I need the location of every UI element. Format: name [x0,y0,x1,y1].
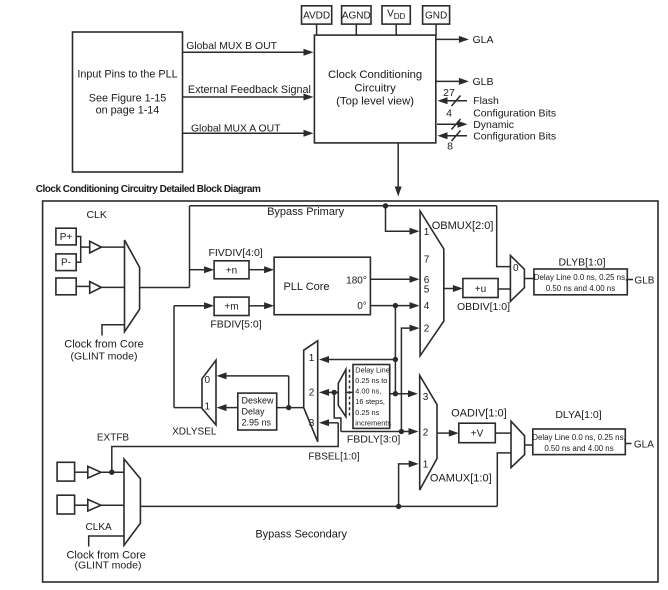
svg-text:Input Pins to the PLL: Input Pins to the PLL [77,69,177,81]
svg-text:Bypass Secondary: Bypass Secondary [255,529,347,541]
wire divider m to PLL core [249,305,265,307]
wire GLA output [436,38,459,40]
pin AGND [342,6,371,24]
node feedback select 1 junction [393,357,398,362]
wire into FBSEL input 2 [329,391,334,393]
wire to OBMUX input 1 [386,206,411,231]
wire GLB mux to DLYB [524,278,534,280]
wire PLL 0 to OBMUX 4 [370,305,410,307]
svg-text:PLL Core: PLL Core [283,281,329,293]
svg-text:4: 4 [424,301,430,312]
wire delayed net to OAMUX 2 [341,431,409,433]
svg-text:0: 0 [205,375,211,386]
wire VDD stem [395,24,397,35]
svg-text:External Feedback Signal: External Feedback Signal [188,84,311,96]
wire delayed net to OBMUX 2 [401,328,410,431]
svg-text:16 steps,: 16 steps, [355,397,385,406]
svg-text:DLYB[1:0]: DLYB[1:0] [558,256,605,268]
svg-text:7: 7 [424,255,430,266]
mux OAMUX [420,375,437,490]
pad CLKA 1 [57,462,75,481]
wire AVDD stem [316,24,318,35]
svg-text:CLKA: CLKA [86,522,112,533]
svg-text:Circuitry: Circuitry [354,82,396,94]
wire pad3 to buffer [76,285,90,287]
svg-text:OBMUX[2:0]: OBMUX[2:0] [432,220,494,232]
wire pad to buffer [75,504,88,506]
svg-text:2: 2 [424,324,430,335]
pad CLKA 2 [57,495,75,514]
PLL core box [274,257,370,315]
mux GLA bypass select [511,421,525,467]
wire OBMUX to divider u [444,288,454,290]
svg-text:FBDLY[3:0]: FBDLY[3:0] [347,434,401,446]
wire CLK mux output [140,287,190,289]
wire feedback into divider m [174,305,205,307]
svg-text:on page 1-14: on page 1-14 [96,105,160,117]
mux CLKA input select [124,459,140,545]
mux XDLYSEL [202,360,216,425]
wire GLB out [627,279,633,281]
wire OAMUX to divider v [437,432,449,434]
pin AVDD [302,6,332,24]
pin GND [423,6,450,24]
wire divider v to DLYA mux [495,432,511,434]
delay line DLYA box [533,429,626,455]
pad CLK single-ended [56,278,76,295]
node delayed net junction [399,429,404,434]
svg-text:Global MUX B OUT: Global MUX B OUT [186,41,277,52]
wire dynamic configuration bits (into box) [447,135,467,137]
svg-text:AGND: AGND [342,11,371,22]
buffer CLKA 2 [88,499,101,511]
svg-text:Configuration Bits: Configuration Bits [473,130,556,142]
svg-text:0.50 ns and 4.00 ns: 0.50 ns and 4.00 ns [546,284,615,293]
wire into XDLYSEL input 1 [226,407,238,409]
svg-text:+V: +V [471,429,484,440]
svg-text:P+: P+ [60,232,73,243]
wire pad to buffer [75,471,88,473]
node tap mux output [332,390,337,395]
divider u box [463,279,498,298]
wire AGND stem [355,24,357,35]
svg-text:180°: 180° [346,275,367,286]
wire dynamic configuration bits (out of box) [437,123,458,125]
svg-text:Deskew: Deskew [242,396,275,406]
svg-text:4: 4 [446,108,452,120]
svg-text:4.00 ns,: 4.00 ns, [355,387,381,396]
pad P+ [56,228,76,245]
buffer CLKA 1 [88,466,101,478]
divider n box [214,261,249,279]
svg-text:(Top level view): (Top level view) [336,96,414,108]
wire EXTFB rail [112,423,338,472]
wire GLA out [625,443,631,445]
svg-text:Global MUX A OUT: Global MUX A OUT [191,124,281,135]
outer detailed box [43,201,658,582]
wire into XDLYSEL input 0 [226,375,289,377]
mux OBMUX [420,211,444,356]
svg-text:1: 1 [205,402,211,413]
svg-text:DLYA[1:0]: DLYA[1:0] [555,409,601,421]
svg-text:5: 5 [424,285,430,296]
svg-text:GND: GND [425,11,447,22]
svg-text:Configuration Bits: Configuration Bits [473,107,556,119]
wire to FBSEL input 1 [328,359,395,361]
wire into FBSEL input 3 [329,422,338,424]
svg-text:(GLINT mode): (GLINT mode) [71,351,138,363]
svg-text:EXTFB: EXTFB [97,433,130,444]
wire buffer1 to mux [101,246,124,248]
svg-text:3: 3 [423,392,429,403]
wire deskew to junction [277,407,304,409]
svg-text:Flash: Flash [473,95,499,107]
svg-text:GLA: GLA [634,440,654,451]
delay line DLYB box [534,269,627,295]
svg-text:GLB: GLB [634,276,654,287]
wire GLB output [436,80,459,82]
svg-text:1: 1 [424,227,430,238]
mux FBDLY tap select [338,370,346,417]
svg-text:Dynamic: Dynamic [473,119,514,131]
svg-text:GLA: GLA [473,34,494,46]
svg-text:OBDIV[1:0]: OBDIV[1:0] [457,301,510,313]
wire to OAMUX input 3 [390,393,409,395]
svg-text:+n: +n [226,265,237,276]
svg-text:2: 2 [309,388,315,399]
wire tap mux taps (dashed) [349,370,351,417]
top-level CCC box [314,35,435,143]
wire Global MUX B OUT [183,51,304,53]
svg-text:GLB: GLB [473,76,494,88]
svg-text:Delay Line 0.0 ns, 0.25 ns,: Delay Line 0.0 ns, 0.25 ns, [534,273,627,282]
svg-text:XDLYSEL: XDLYSEL [172,427,217,438]
svg-text:0.50 ns and 4.00 ns: 0.50 ns and 4.00 ns [544,444,613,453]
svg-text:P-: P- [61,258,71,269]
svg-text:2: 2 [423,428,429,439]
svg-text:OAMUX[1:0]: OAMUX[1:0] [430,472,492,484]
delay line FBDLY box [353,365,390,429]
svg-text:Delay: Delay [242,406,266,416]
svg-text:Delay Line 0.0 ns, 0.25 ns,: Delay Line 0.0 ns, 0.25 ns, [532,433,625,442]
svg-text:Clock from Core: Clock from Core [64,339,143,351]
svg-text:See Figure 1-15: See Figure 1-15 [89,93,166,105]
mux GLB bypass select [510,255,524,301]
svg-text:Bypass Primary: Bypass Primary [267,206,345,218]
wire PLL 180 to OBMUX 6 [370,278,410,280]
wire to OAMUX input 1 [399,464,410,507]
svg-text:(GLINT mode): (GLINT mode) [75,560,142,572]
node bypass secondary junction [396,504,401,509]
mux FBSEL [304,341,318,442]
wire buffer to CLKA mux [101,471,124,473]
svg-text:Clock Conditioning Circuitry D: Clock Conditioning Circuitry Detailed Bl… [36,184,261,195]
svg-text:AVDD: AVDD [303,11,330,22]
svg-text:FIVDIV[4:0]: FIVDIV[4:0] [208,247,262,259]
wire divider u to GLB mux [498,288,510,290]
wire GND stem [435,24,437,35]
wire tap mux to delay line [346,391,353,393]
wire flash configuration bits (into box) [447,100,467,102]
wire buffer2 to mux [101,286,124,288]
svg-text:1: 1 [309,353,315,364]
node EXTFB tap [109,470,114,475]
divider m box [214,297,249,315]
svg-text:increments: increments [355,418,391,427]
wire P+/P- join [76,237,81,263]
wire 0deg net vertical [394,306,396,394]
wire clock from core stub CLKA [89,536,124,547]
deskew delay box [238,393,277,430]
svg-text:27: 27 [443,87,455,99]
node bypass primary junction [383,203,388,208]
buffer CLK differential [90,241,102,253]
svg-text:+u: +u [475,284,486,295]
divider v box [459,423,496,443]
svg-text:FBSEL[1:0]: FBSEL[1:0] [308,451,359,462]
svg-text:1: 1 [423,459,429,470]
svg-text:0.25 ns: 0.25 ns [355,408,379,417]
node deskew junction [286,405,291,410]
wire down arrow to detailed diagram [397,143,399,187]
wire clock from core stub [102,325,125,336]
wire to divider n [190,269,205,271]
svg-text:Delay Line: Delay Line [355,365,389,374]
input pins box [73,32,183,172]
svg-text:FBDIV[5:0]: FBDIV[5:0] [210,318,261,330]
wire riser to bypass primary rail [189,206,191,288]
svg-text:CLK: CLK [86,209,106,221]
wire buffer to CLKA mux [101,504,124,506]
buffer CLK single [90,282,102,294]
wire rail to GLB bypass mux [497,206,511,267]
wire delayed net step [334,392,341,431]
mux CLK input select [125,240,140,332]
wire divider n to PLL core [249,269,265,271]
wire bypass secondary to GLA mux [497,453,511,507]
wire bypass primary rail [190,205,497,207]
wire feedback riser [173,306,175,408]
wire External Feedback Signal [183,96,304,98]
svg-text:8: 8 [447,141,453,153]
svg-text:+m: +m [224,302,238,313]
wire bypass secondary rail [140,505,497,507]
pad P- [56,254,76,271]
node 0deg junction [393,303,398,308]
svg-text:0: 0 [513,263,519,274]
svg-text:Clock Conditioning: Clock Conditioning [328,69,422,81]
svg-text:0.25 ns to: 0.25 ns to [355,376,387,385]
svg-text:0°: 0° [357,301,367,312]
node FBDLY input junction [393,391,398,396]
svg-text:OADIV[1:0]: OADIV[1:0] [451,408,507,420]
wire XDLYSEL output [174,407,202,409]
wire DLYA mux to DLYA [525,444,533,446]
svg-text:2.95 ns: 2.95 ns [242,417,272,427]
pin VDD [382,6,410,24]
svg-text:3: 3 [309,418,315,429]
wire junction riser [288,376,290,408]
wire Global MUX A OUT [183,132,304,134]
